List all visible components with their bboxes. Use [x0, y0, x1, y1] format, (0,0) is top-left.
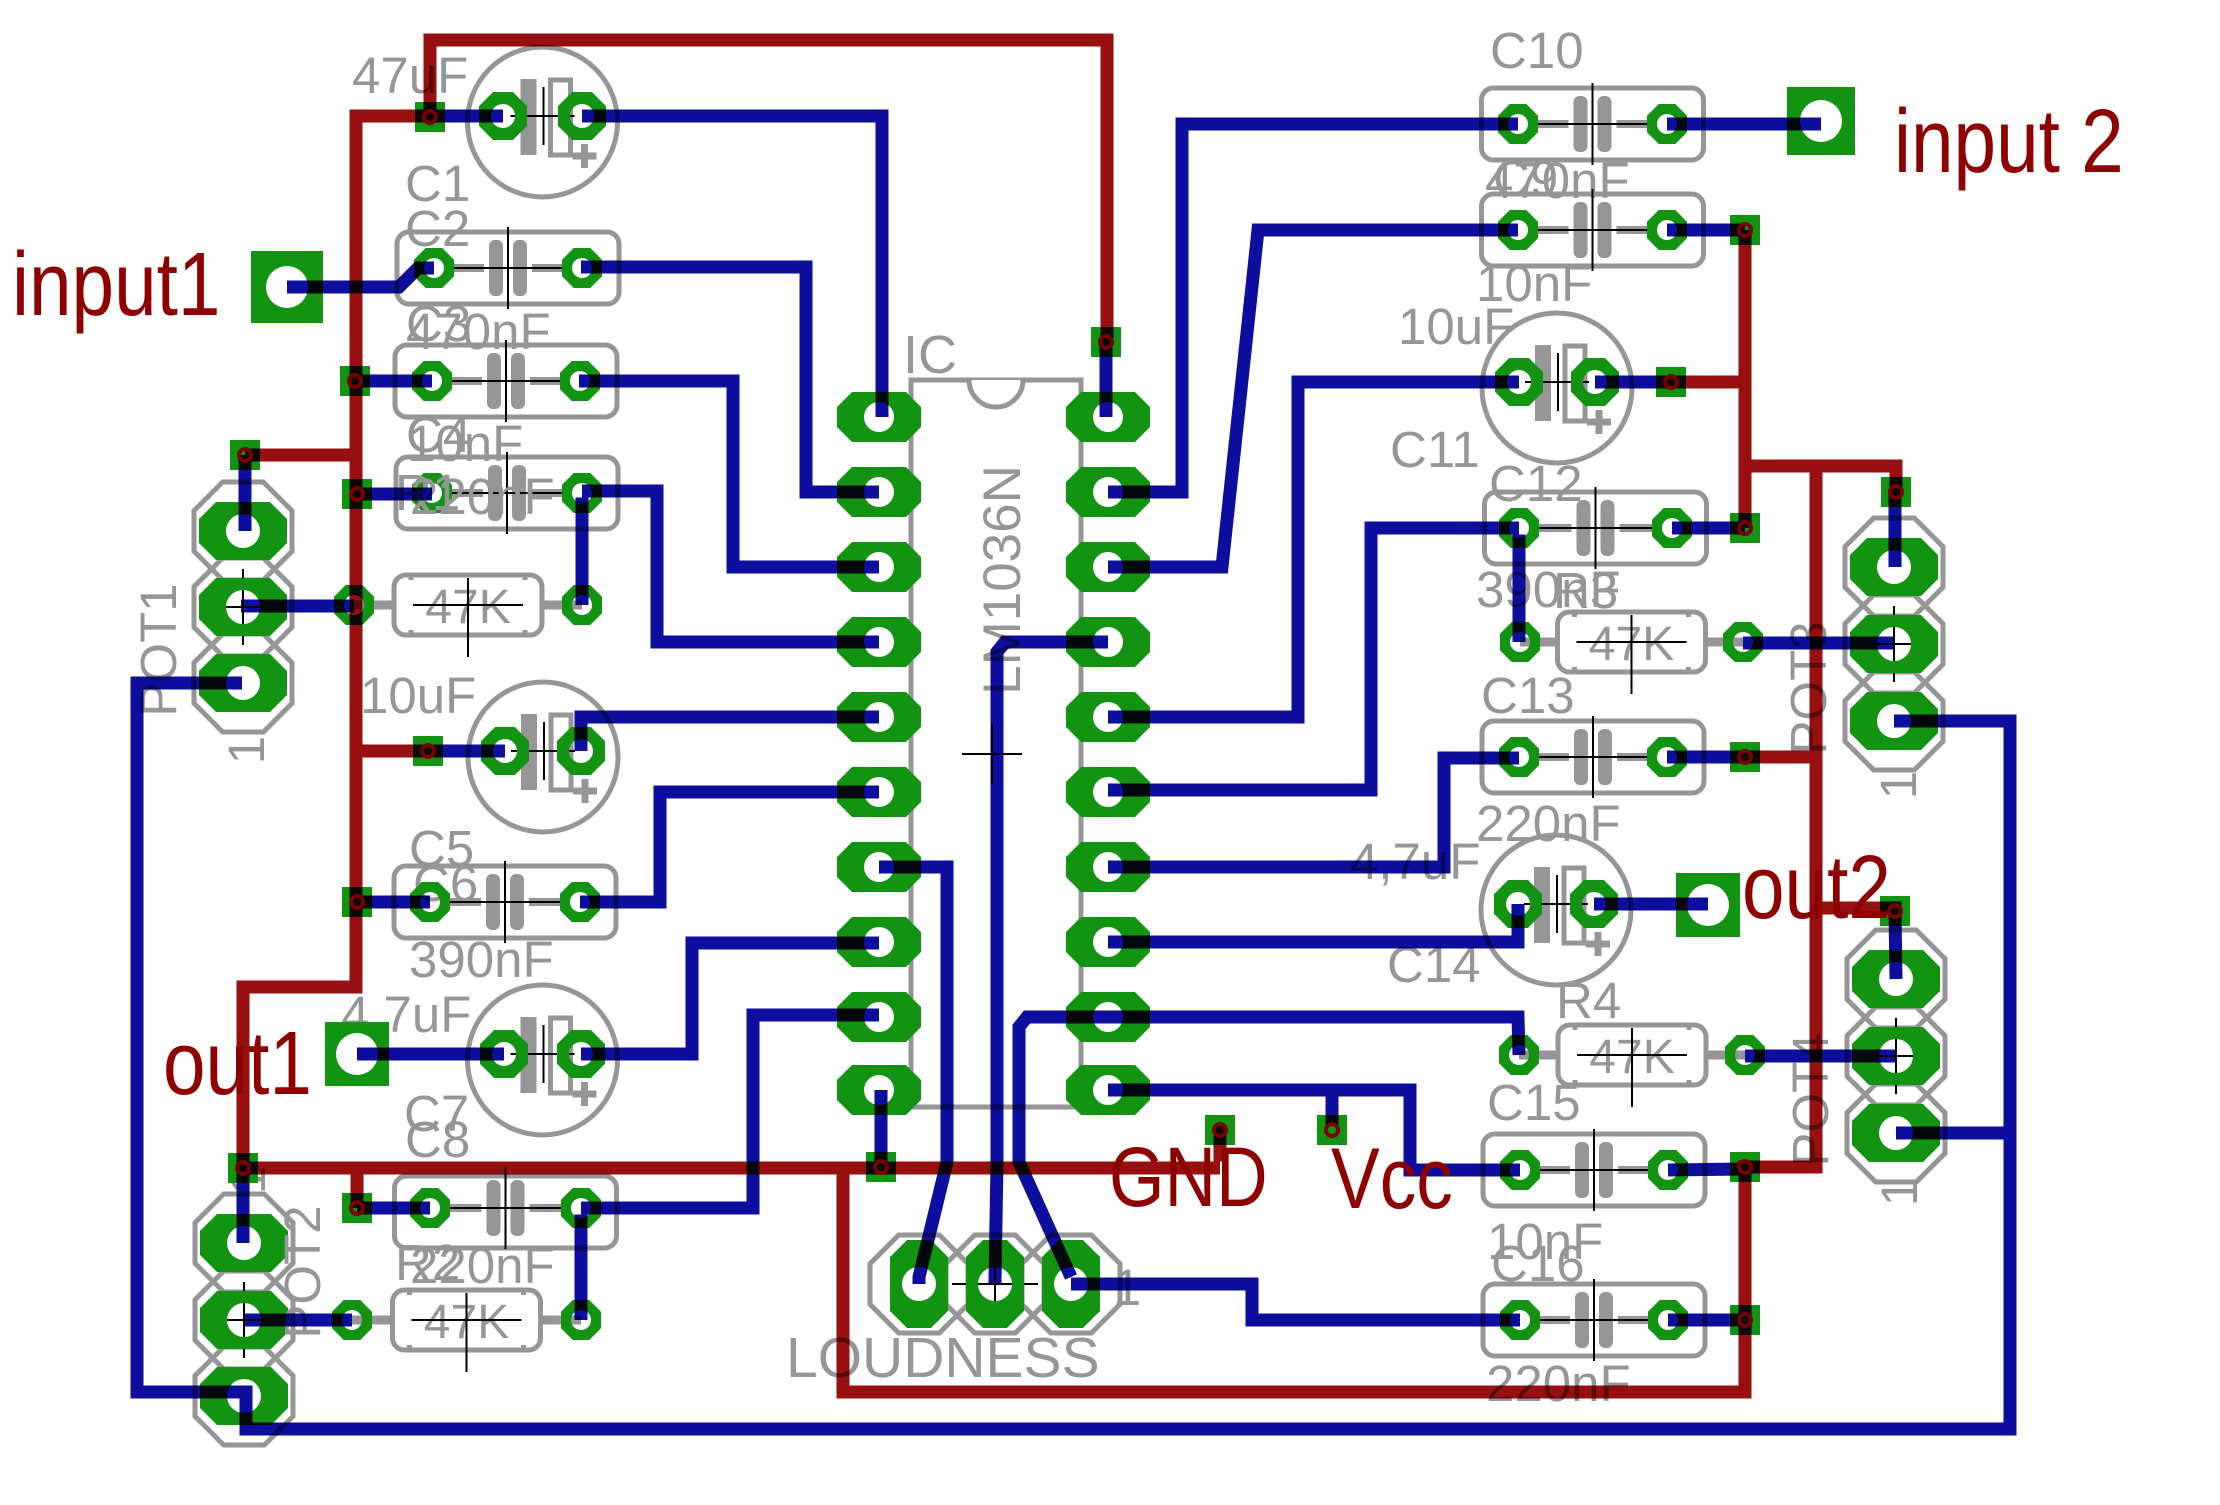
via V12 hole [1100, 336, 1112, 348]
header POT2 silkscreen octagons [195, 1194, 293, 1292]
wire via to IC pin20 [1100, 342, 1113, 417]
via V17 [1881, 477, 1911, 507]
capacitor C4 plates [488, 465, 502, 521]
via V1 [415, 102, 445, 132]
resistor R2 body [393, 1290, 541, 1350]
pad out2 [1676, 873, 1740, 937]
wire out1 to C7 left [357, 1048, 504, 1061]
capacitor C1 outline circle [468, 47, 618, 197]
resistor R2 origin cross [412, 1319, 522, 1321]
wire LOUDNESS pin1 through IC pin12 to R4 left [1019, 1017, 1519, 1277]
via V11 hole [1326, 1124, 1338, 1136]
IC pin 18 pad (right) [1066, 542, 1150, 592]
capacitor C16 pad 2 [1648, 1300, 1688, 1340]
capacitor C6 plates [486, 874, 500, 930]
wire via to C4 left [356, 488, 432, 501]
via V5 hole [422, 745, 434, 757]
capacitor C14 plus sign [1586, 941, 1610, 948]
capacitor C7 pad - [480, 1030, 528, 1078]
capacitor C14 origin cross [1524, 903, 1588, 905]
capacitor C12 origin cross [1539, 527, 1653, 529]
capacitor C2 plates [489, 240, 503, 296]
capacitor C9 origin cross [1536, 229, 1650, 231]
wire IC pin19 to C10 left [1108, 124, 1518, 492]
capacitor C3 origin cross [449, 380, 563, 382]
header POT4 pad 3 [1852, 1104, 1940, 1162]
wire C8 right to R2 right [575, 1215, 588, 1321]
capacitor C8 pad 2 [561, 1188, 601, 1228]
header POT2 pad 2 [200, 1291, 288, 1349]
IC pin 13 pad (right) [1066, 917, 1150, 967]
header POT1 origin cross [200, 606, 286, 608]
capacitor C14 outline circle [1481, 835, 1631, 985]
capacitor C15 origin cross [1537, 1169, 1651, 1171]
capacitor C2 pad 1 [414, 248, 454, 288]
wire C12 right to via [1672, 522, 1745, 535]
capacitor C5 origin cross [511, 750, 575, 752]
resistor R1 body [394, 575, 542, 635]
svg-text:1: 1 [218, 736, 275, 764]
wire red C12 via link [1739, 473, 1752, 529]
svg-text:C13: C13 [1481, 667, 1575, 724]
capacitor C15 plates [1575, 1142, 1589, 1198]
via V14 [1656, 367, 1686, 397]
capacitor C4 pad 1 [412, 473, 452, 513]
capacitor C1 origin cross [511, 115, 575, 117]
svg-text:IC: IC [903, 325, 957, 385]
capacitor C15 pad 2 [1648, 1150, 1688, 1190]
capacitor C14 plus plate [1564, 868, 1584, 943]
capacitor C13 pad 1 [1499, 737, 1539, 777]
wire C1 right to IC pin1 [582, 116, 882, 417]
wire IC pin17 to LOUDNESS pin2 [995, 642, 1108, 1284]
capacitor C10 leads [1536, 120, 1569, 128]
resistor R4 leads [1519, 1051, 1562, 1060]
resistor R3 leads [1520, 638, 1562, 647]
via V13 [1730, 215, 1760, 245]
capacitor C14 pad + [1570, 880, 1618, 928]
capacitor C16 plates [1575, 1292, 1589, 1348]
header POT3 pad 3 [1850, 692, 1938, 750]
header POT4 origin cross [1853, 1055, 1939, 1057]
svg-text:LOUDNESS: LOUDNESS [786, 1326, 1100, 1390]
capacitor C5 outline circle [468, 682, 618, 832]
IC pin 8 pad (left) [837, 917, 921, 967]
capacitor C1 minus plate [521, 79, 537, 155]
resistor R1 pad 2 [562, 585, 602, 625]
svg-text:4,7uF: 4,7uF [341, 986, 471, 1043]
capacitor C5 pad + [557, 727, 605, 775]
via V3 [340, 366, 370, 396]
wire via to C1 left [430, 110, 503, 123]
svg-text:1: 1 [1870, 771, 1927, 799]
via V16 [1730, 742, 1760, 772]
wire red branch to C5 via [363, 745, 429, 758]
header POT1 pad 3 [199, 654, 287, 712]
IC pin 1 pad (left) [837, 392, 921, 442]
via V17 hole [1890, 486, 1902, 498]
via V2 hole [239, 449, 251, 461]
capacitor C16 origin cross [1537, 1319, 1651, 1321]
wire R3 right to POT3 pin2 [1743, 637, 1894, 650]
capacitor C2 leads [452, 264, 484, 272]
via V4 [342, 479, 372, 509]
capacitor C8 outline [395, 1176, 617, 1248]
capacitor C9 pad 1 [1498, 210, 1538, 250]
via V3 hole [349, 375, 361, 387]
resistor R4 body [1558, 1025, 1706, 1085]
capacitor C2 outline [397, 232, 619, 304]
pad out1 [325, 1022, 389, 1086]
capacitor C14 minus plate [1534, 867, 1550, 943]
IC pin 4 pad (left) [837, 617, 921, 667]
wire C12 left to R3 left [1513, 535, 1526, 643]
svg-text:10uF: 10uF [360, 667, 476, 724]
capacitor C11 pad - [1495, 358, 1543, 406]
svg-text:220nF: 220nF [1476, 795, 1621, 852]
capacitor C1 pad + [558, 92, 606, 140]
wire red C11 via link [1671, 376, 1739, 389]
header LOUDNESS pad 1 [890, 1240, 948, 1328]
wire C11 right to via [1595, 376, 1671, 389]
capacitor C12 pad 1 [1499, 508, 1539, 548]
capacitor C15 pad 1 [1500, 1150, 1540, 1190]
via V18 [1880, 896, 1910, 926]
via V15 hole [1739, 522, 1751, 534]
resistor R2 pad 1 [332, 1300, 372, 1340]
capacitor C5 pad - [481, 727, 529, 775]
via V6 [342, 887, 372, 917]
capacitor C12 pad 2 [1652, 508, 1692, 548]
capacitor C11 origin cross [1525, 381, 1589, 383]
header POT4 pad 1 [1852, 950, 1940, 1008]
header POT3 silkscreen octagons [1845, 518, 1943, 616]
via V7 hole [351, 1202, 363, 1214]
header POT1 silkscreen octagons [194, 482, 292, 580]
resistor R2 pad 2 [561, 1300, 601, 1340]
capacitor C4 origin cross [450, 492, 564, 494]
capacitor C1 pad - [479, 92, 527, 140]
via V20 hole [1739, 1314, 1751, 1326]
capacitor C5 minus plate [521, 714, 537, 790]
capacitor C14 pad - [1494, 880, 1542, 928]
svg-text:Vcc: Vcc [1331, 1130, 1453, 1226]
capacitor C10 plates [1574, 96, 1588, 152]
svg-text:220nF: 220nF [1486, 1355, 1631, 1412]
capacitor C13 leads [1537, 753, 1569, 761]
capacitor C13 plates [1574, 729, 1588, 785]
resistor R3 body [1558, 612, 1706, 672]
capacitor C7 minus plate [521, 1017, 537, 1093]
wire IC pin13 to C14 left [1108, 904, 1518, 942]
wire via to POT4 pin1 [1895, 911, 1896, 979]
svg-text:C10: C10 [1490, 22, 1584, 79]
via V12 [1091, 327, 1121, 357]
via V19 [1730, 1152, 1760, 1182]
IC pin 10 pad (left) [837, 1065, 921, 1115]
IC pin 3 pad (left) [837, 542, 921, 592]
capacitor C11 plus sign [1587, 419, 1611, 426]
capacitor C16 outline [1483, 1284, 1705, 1356]
pad input2 [1787, 87, 1855, 155]
wire C8 right to IC pin9 [581, 1015, 879, 1208]
wire IC pin10 to via [875, 1090, 888, 1167]
capacitor C4 pad 2 [562, 473, 602, 513]
svg-text:out2: out2 [1742, 836, 1891, 937]
wire C4 right to IC pin4 [582, 491, 879, 642]
wire LOUDNESS pin1 to C16 left [1071, 1284, 1520, 1320]
svg-text:47uF: 47uF [352, 47, 468, 104]
wire C7 right to IC pin8 [581, 943, 879, 1054]
capacitor C13 origin cross [1536, 756, 1650, 758]
via V7 [342, 1193, 372, 1223]
IC pin 16 pad (right) [1066, 692, 1150, 742]
wire Vcc stub [1326, 1097, 1339, 1127]
capacitor C8 leads [448, 1204, 482, 1212]
header LOUDNESS silkscreen octagons [870, 1235, 968, 1333]
resistor R4 origin cross [1577, 1054, 1687, 1056]
IC pin 12 pad (right) [1066, 992, 1150, 1042]
wire red stub to C8 via [351, 1175, 364, 1209]
via V6 hole [351, 896, 363, 908]
wire red link C9 via to POT3 pin1 via [1745, 230, 1896, 492]
header POT1 pad 1 [199, 502, 287, 560]
capacitor C15 leads [1538, 1166, 1570, 1174]
wire red top loop [430, 40, 1107, 342]
wire red to POT4 pin1 via [1823, 908, 1896, 911]
capacitor C6 leads [448, 898, 481, 906]
capacitor C11 outline circle [1482, 313, 1632, 463]
capacitor C13 pad 2 [1647, 737, 1687, 777]
IC pin 19 pad (right) [1066, 467, 1150, 517]
svg-text:C11: C11 [1390, 421, 1480, 478]
header POT2 pad 1 [200, 1214, 288, 1272]
via V9 [866, 1152, 896, 1182]
wire R4 right to POT4 pin2 [1745, 1050, 1896, 1063]
wire C16 right to via [1668, 1314, 1745, 1327]
wire IC pin16 to C11 left [1108, 382, 1519, 717]
capacitor C3 leads [450, 377, 482, 385]
IC pin 6 pad (left) [837, 767, 921, 817]
capacitor C7 plus plate [551, 1018, 571, 1093]
resistor R4 pad 2 [1725, 1035, 1765, 1075]
svg-text:C12: C12 [1489, 455, 1583, 512]
wire C2 right to IC pin2 [581, 267, 879, 492]
capacitor C8 plates [487, 1180, 501, 1236]
wire IC pin11 to C15 left [1108, 1090, 1520, 1170]
wire POT1 pin3 to POT2 pin3 to bottom run to POT3 pin3 [137, 683, 2010, 1429]
svg-text:GND: GND [1109, 1129, 1268, 1224]
IC origin cross [962, 753, 1022, 755]
capacitor C7 outline circle [468, 985, 618, 1135]
via V14 hole [1665, 376, 1677, 388]
capacitor C3 pad 1 [412, 361, 452, 401]
svg-text:C15: C15 [1487, 1074, 1581, 1131]
via V9 hole [875, 1161, 887, 1173]
via V13 hole [1739, 224, 1751, 236]
wire POT4 pin3 to bottom run [1896, 1127, 2004, 1140]
wire C13 right to via [1667, 751, 1745, 764]
header LOUDNESS origin cross [952, 1283, 1038, 1285]
wire red left spine [243, 116, 1220, 1168]
capacitor C6 pad 2 [560, 882, 600, 922]
header POT2 origin cross [201, 1319, 287, 1321]
capacitor C2 origin cross [451, 267, 565, 269]
capacitor C10 pad 1 [1498, 104, 1538, 144]
IC pin 7 pad (left) [837, 842, 921, 892]
via V10 [1205, 1115, 1235, 1145]
IC LM1036N outline [911, 380, 1081, 1107]
capacitor C11 pad + [1571, 358, 1619, 406]
resistor R1 pad 1 [334, 585, 374, 625]
via V4 hole [351, 488, 363, 500]
capacitor C12 outline [1485, 492, 1707, 564]
wire POT2 pin2 to R2 left [243, 1314, 352, 1327]
via V19 hole [1739, 1161, 1751, 1173]
wire via to POT3 pin1 [1889, 492, 1902, 567]
wire IC pin15 to C12 left [1108, 528, 1519, 790]
wire IC pin18 to C9 left [1108, 230, 1518, 567]
svg-text:R4: R4 [1556, 972, 1621, 1029]
wire red GND stub [1214, 1126, 1227, 1162]
capacitor C4 leads [450, 489, 483, 497]
wire C6 right to IC pin6 [580, 792, 879, 902]
wire C3 right to IC pin3 [579, 381, 879, 567]
capacitor C10 pad 2 [1647, 104, 1687, 144]
header POT2 pad 3 [200, 1367, 288, 1425]
wire C9 right to via [1667, 224, 1745, 237]
capacitor C9 pad 2 [1647, 210, 1687, 250]
resistor R3 pad 1 [1500, 622, 1540, 662]
svg-text:470nF: 470nF [1485, 152, 1630, 209]
capacitor C16 pad 1 [1500, 1300, 1540, 1340]
capacitor C12 leads [1537, 524, 1572, 532]
via V20 [1730, 1305, 1760, 1335]
wire via to C5 left [428, 745, 505, 758]
capacitor C9 plates [1574, 202, 1588, 258]
svg-text:C8: C8 [405, 1111, 470, 1168]
via V11 [1317, 1115, 1347, 1145]
header POT3 origin cross [1851, 643, 1937, 645]
wire POT1 pin2 to R1 left [241, 600, 354, 613]
wire input1 to C2 [287, 268, 434, 287]
wire C14 right to out2 [1594, 898, 1708, 911]
wire IC pin14 to C13 left [1108, 758, 1519, 867]
wire red bottom loop and right spine [843, 473, 1816, 1393]
via V2 [230, 440, 260, 470]
capacitor C10 outline [1482, 88, 1704, 160]
IC pin 9 pad (left) [837, 992, 921, 1042]
capacitor C8 pad 1 [410, 1188, 450, 1228]
capacitor C4 outline [396, 457, 618, 529]
via V1 hole [424, 111, 436, 123]
svg-text:input1: input1 [12, 233, 220, 334]
IC pin 14 pad (right) [1066, 842, 1150, 892]
capacitor C1 plus sign [573, 153, 597, 160]
IC pin 2 pad (left) [837, 467, 921, 517]
via V5 [413, 736, 443, 766]
wire red C13 via link [1745, 751, 1810, 764]
wire IC pin7 to LOUDNESS pin3 [879, 867, 947, 1284]
resistor R4 pad 1 [1499, 1035, 1539, 1075]
capacitor C1 plus plate [551, 80, 571, 155]
wire via to C6 left [357, 896, 430, 909]
wire C15 right to via [1668, 1169, 1745, 1170]
header POT1 pad 2 [199, 578, 287, 636]
capacitor C2 pad 2 [562, 248, 602, 288]
header POT3 pad 1 [1850, 538, 1938, 596]
capacitor C10 origin cross [1536, 123, 1650, 125]
svg-text:input 2: input 2 [1894, 90, 2124, 191]
capacitor C3 outline [395, 345, 617, 417]
wire via to C8 left [357, 1202, 430, 1215]
pad input1 [251, 251, 323, 323]
IC pin 5 pad (left) [837, 692, 921, 742]
svg-text:out1: out1 [163, 1012, 312, 1113]
IC pin 20 pad (right) [1066, 392, 1150, 442]
header LOUDNESS pad 3 [1042, 1240, 1100, 1328]
header POT4 silkscreen octagons [1847, 930, 1945, 1028]
capacitor C13 outline [1482, 721, 1704, 793]
wire red branch to POT1 via [245, 449, 350, 462]
capacitor C8 origin cross [449, 1207, 563, 1209]
via V10 hole [1214, 1124, 1226, 1136]
capacitor C9 leads [1536, 226, 1569, 234]
wire C4 right to R1 right [576, 498, 589, 606]
IC pin 17 pad (right) [1066, 617, 1150, 667]
resistor R2 leads [352, 1316, 397, 1325]
via V16 hole [1739, 751, 1751, 763]
capacitor C12 plates [1577, 500, 1591, 556]
svg-text:470nF: 470nF [406, 303, 551, 360]
capacitor C6 pad 1 [410, 882, 450, 922]
wire C5 right to IC pin5 [581, 717, 879, 751]
capacitor C7 plus sign [573, 1091, 597, 1098]
via V18 hole [1889, 905, 1901, 917]
header LOUDNESS pad 2 [966, 1240, 1024, 1328]
header POT3 pad 2 [1850, 615, 1938, 673]
capacitor C15 outline [1483, 1134, 1705, 1206]
capacitor C6 origin cross [448, 901, 562, 903]
resistor R3 pad 2 [1723, 622, 1763, 662]
capacitor C6 outline [394, 866, 616, 938]
resistor R1 leads [354, 601, 398, 610]
capacitor C7 origin cross [511, 1053, 575, 1055]
capacitor C16 leads [1538, 1316, 1570, 1324]
IC pin 15 pad (right) [1066, 767, 1150, 817]
svg-text:220nF: 220nF [410, 1237, 555, 1294]
resistor R1 origin cross [413, 604, 523, 606]
via V8 [228, 1153, 258, 1183]
via V8 hole [237, 1162, 249, 1174]
capacitor C9 outline [1482, 194, 1704, 266]
svg-text:390nF: 390nF [409, 931, 554, 988]
via V15 [1730, 513, 1760, 543]
wire C10 right to input2 [1667, 118, 1821, 131]
IC pin 11 pad (right) [1066, 1065, 1150, 1115]
wire via to POT1 pin1 [239, 455, 252, 531]
wire via to C3 left [355, 375, 432, 388]
capacitor C5 plus sign [573, 788, 597, 795]
capacitor C3 plates [487, 353, 501, 409]
capacitor C3 pad 2 [560, 361, 600, 401]
svg-text:1: 1 [1871, 1178, 1928, 1206]
capacitor C11 minus plate [1535, 345, 1551, 421]
capacitor C11 plus plate [1565, 346, 1585, 421]
header POT4 pad 2 [1852, 1027, 1940, 1085]
resistor R3 origin cross [1577, 641, 1687, 643]
wire via to POT2 pin1 [237, 1168, 250, 1243]
